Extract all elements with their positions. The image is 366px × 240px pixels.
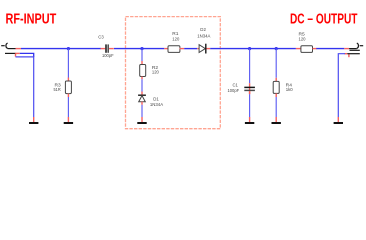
- diode D1: [138, 95, 146, 102]
- node junction at R4 branch: [275, 47, 278, 50]
- svg-text:100pF: 100pF: [102, 53, 114, 58]
- node junction at R2 branch: [140, 47, 143, 50]
- wire: input shield to ground: [16, 57, 34, 117]
- pin stub C3 left: [101, 48, 106, 50]
- pin stub gnd3: [141, 117, 143, 122]
- pin stub C1 bottom: [249, 91, 251, 94]
- svg-text:100pF: 100pF: [228, 88, 240, 93]
- connector X1 (RF input plug): [1, 43, 15, 53]
- pin stub R3 bottom: [67, 94, 69, 97]
- pin stub D2 anode: [197, 48, 199, 50]
- svg-text:120: 120: [172, 37, 179, 42]
- capacitor C1: [244, 87, 255, 90]
- pin stub gnd6: [337, 117, 339, 122]
- resistor R5: [301, 46, 313, 53]
- wire: R1 to D2: [184, 48, 197, 50]
- pin stub X1 signal: [16, 48, 22, 50]
- resistor R3: [65, 81, 71, 94]
- wire: junction down to R2: [141, 49, 143, 61]
- diode D2: [199, 44, 206, 54]
- ground GND4: [245, 122, 254, 124]
- svg-text:R1: R1: [172, 31, 179, 36]
- wire: D1 to ground: [141, 105, 143, 117]
- svg-text:C1: C1: [233, 82, 239, 87]
- svg-text:RF-INPUT: RF-INPUT: [6, 11, 57, 27]
- pin stub R5 left: [296, 48, 301, 50]
- wire: main line input to C3: [21, 48, 101, 50]
- detector dashed enclosure box: [126, 17, 221, 129]
- ground GND3: [137, 122, 146, 124]
- pin stub X1 shield: [16, 53, 20, 56]
- node junction at C1 branch: [248, 47, 251, 50]
- svg-text:1k0: 1k0: [286, 87, 293, 92]
- wire: D2 to R5: [210, 48, 296, 50]
- pin stub R4 top: [275, 78, 277, 82]
- pin stub D1 anode: [141, 102, 143, 105]
- pin stub C3 right: [109, 48, 114, 50]
- pin stub gnd2: [67, 117, 69, 122]
- pin stub X2 shield: [344, 54, 349, 58]
- ground GND2: [64, 122, 73, 124]
- pin stub R3 top: [67, 78, 69, 82]
- connector X2 (DC output plug): [347, 43, 363, 54]
- wire: junction down to R4: [275, 49, 277, 78]
- pin stub gnd4: [249, 117, 251, 122]
- resistor R1: [168, 46, 180, 53]
- wire: input shield stub run: [20, 53, 34, 57]
- wire: C1 to ground: [249, 94, 251, 117]
- ground GND1: [29, 122, 38, 124]
- pin stub C1 top: [249, 83, 251, 94]
- pin stub X2 signal: [344, 48, 349, 50]
- ground GND5: [272, 122, 281, 124]
- pin stub D2 cathode: [207, 48, 211, 50]
- pin stub gnd5: [275, 117, 277, 122]
- wire: junction down to R3: [67, 49, 69, 78]
- svg-text:120: 120: [152, 70, 159, 75]
- wire: junction down to C1: [249, 49, 251, 84]
- capacitor C3: [106, 44, 108, 52]
- pin stub gnd1: [33, 117, 35, 122]
- wire: R2 to D1: [141, 79, 143, 91]
- node junction at R3: [67, 47, 70, 50]
- wire: C3 to R1: [114, 48, 164, 50]
- svg-text:C3: C3: [98, 34, 104, 39]
- svg-text:1N34A: 1N34A: [150, 102, 164, 107]
- svg-text:D2: D2: [200, 27, 206, 32]
- svg-text:D1: D1: [153, 96, 159, 101]
- pin stub R2 bottom: [141, 77, 143, 80]
- pin stub D1 cathode: [141, 92, 143, 95]
- wire: R3 to ground: [67, 97, 69, 117]
- pin stub R2 top: [141, 61, 143, 65]
- wire: R4 to ground: [275, 97, 277, 117]
- pin stub R1 right: [180, 48, 185, 50]
- pin stub R4 bottom: [275, 93, 277, 97]
- wire: output shield to ground: [338, 54, 345, 117]
- ground GND6: [334, 122, 343, 124]
- pin stub R5 right: [313, 48, 317, 50]
- svg-text:1N34A: 1N34A: [197, 33, 211, 38]
- resistor R2: [140, 65, 146, 77]
- svg-text:120: 120: [299, 37, 306, 42]
- wire: R5 to output connector: [316, 48, 344, 50]
- svg-text:DC – OUTPUT: DC – OUTPUT: [290, 11, 358, 27]
- svg-text:51R: 51R: [54, 87, 62, 92]
- pin stub R1 left: [164, 48, 168, 50]
- resistor R4: [273, 81, 279, 93]
